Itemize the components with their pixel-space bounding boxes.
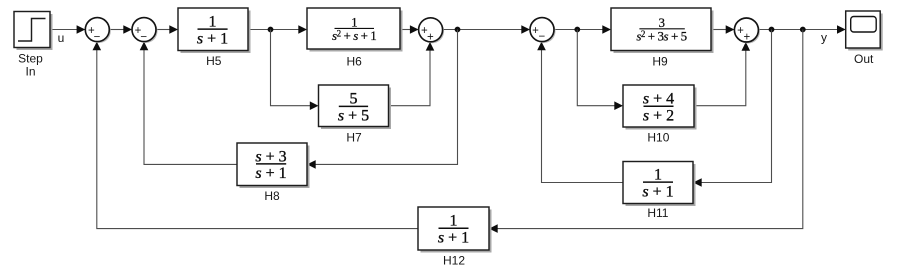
node N2 junction <box>455 27 461 33</box>
wire: H6 to Sum3 <box>400 29 411 31</box>
wire: H10 output to Sum5 bottom <box>694 49 746 106</box>
svg-text:H7: H7 <box>346 131 362 145</box>
svg-text:H6: H6 <box>347 54 363 68</box>
block H7 <box>321 88 391 130</box>
svg-text:H12: H12 <box>443 254 465 268</box>
block H10 <box>626 88 697 130</box>
svg-text:Step: Step <box>18 52 43 66</box>
svg-text:+: + <box>743 32 750 44</box>
block H11 <box>626 164 696 206</box>
wire: H12 output to Sum1 bottom <box>97 48 418 229</box>
wire: Sum4 to H9 <box>554 29 603 31</box>
svg-text:H11: H11 <box>647 206 668 220</box>
wire: Sum2 to H5 <box>156 29 170 31</box>
svg-text:s + 3: s + 3 <box>255 148 286 165</box>
wire: H11 output to Sum4 bottom <box>542 48 624 183</box>
wire: N1 branch to H7 input <box>271 30 312 106</box>
svg-text:s + 4: s + 4 <box>643 91 674 108</box>
sum S2 <box>134 19 158 43</box>
svg-text:1: 1 <box>209 13 217 30</box>
wire: N4 branch to H11 input <box>701 30 772 183</box>
svg-text:−: − <box>94 31 101 43</box>
svg-text:+: + <box>427 32 434 44</box>
wire: H8 output to Sum2 bottom <box>144 48 237 164</box>
block H8 <box>240 146 310 189</box>
svg-text:s + 1: s + 1 <box>197 30 228 47</box>
block Out <box>848 14 883 51</box>
wire: Sum3 to Sum4 <box>443 29 523 31</box>
svg-text:y: y <box>821 31 827 45</box>
sum S4 <box>532 19 556 43</box>
svg-text:u: u <box>58 31 65 45</box>
wire: H5 to H6 <box>248 29 299 31</box>
svg-text:s + 1: s + 1 <box>642 183 673 200</box>
node N4 junction <box>769 27 775 33</box>
svg-text:5: 5 <box>350 91 358 108</box>
block H12 <box>421 210 492 253</box>
block Step <box>17 14 53 50</box>
svg-text:s + 1: s + 1 <box>438 229 469 246</box>
sum S1 <box>87 19 111 43</box>
block H6 <box>310 11 403 52</box>
wire: Sum1 to Sum2 <box>109 29 124 31</box>
svg-text:s + 2: s + 2 <box>643 107 674 124</box>
svg-text:H5: H5 <box>206 54 222 68</box>
sum S5 <box>736 20 760 44</box>
wire: H7 output to Sum3 bottom <box>389 49 430 106</box>
svg-text:1: 1 <box>654 166 662 183</box>
block H5 <box>181 11 251 54</box>
svg-text:In: In <box>25 65 35 79</box>
svg-text:s + 1: s + 1 <box>255 165 286 182</box>
svg-text:H8: H8 <box>264 189 280 203</box>
wire: Step to Sum1 <box>50 29 78 31</box>
svg-text:H10: H10 <box>647 131 669 145</box>
node N1 junction <box>268 27 274 33</box>
wire: N3 branch to H10 input <box>577 30 615 106</box>
svg-text:−: − <box>539 31 546 43</box>
wire: N2 branch to H8 input <box>314 30 458 165</box>
wire: Sum5 to Out <box>758 29 838 31</box>
svg-text:−: − <box>140 31 147 43</box>
svg-text:s + 5: s + 5 <box>338 108 369 125</box>
svg-text:Out: Out <box>854 52 874 66</box>
node N3 junction <box>574 27 580 33</box>
svg-text:1: 1 <box>450 212 458 229</box>
wire: N5 branch to H12 input <box>497 30 803 229</box>
node N5 junction <box>800 27 806 33</box>
sum S3 <box>420 19 444 43</box>
wire: H9 to Sum5 <box>711 29 727 31</box>
block H9 <box>614 11 714 54</box>
svg-text:H9: H9 <box>652 54 668 68</box>
